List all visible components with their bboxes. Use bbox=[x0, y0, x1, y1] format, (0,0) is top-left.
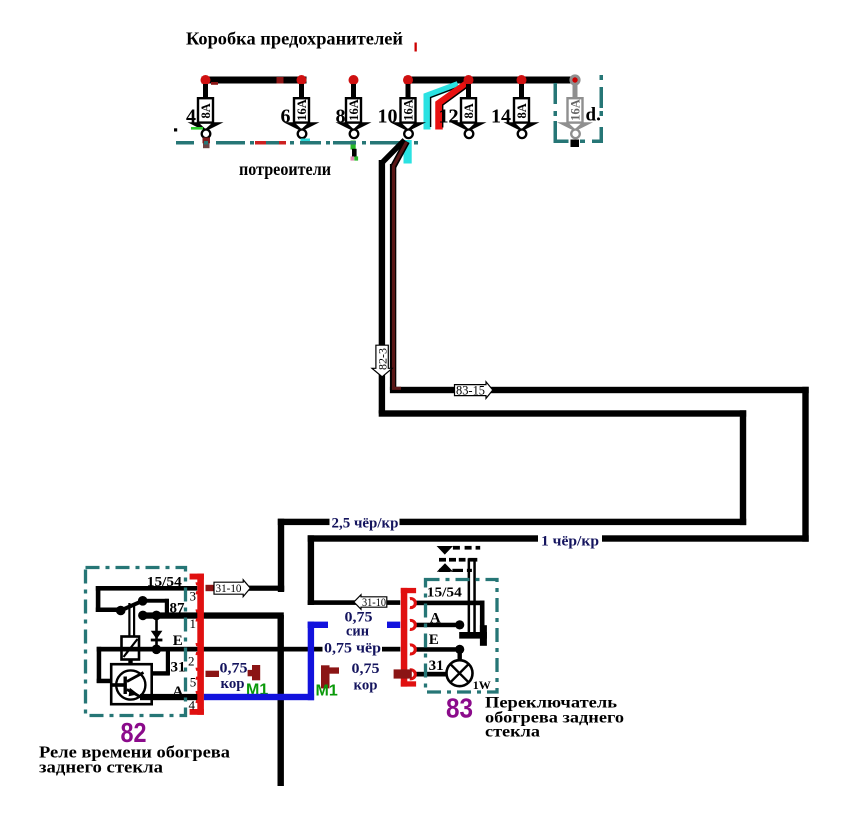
wire: vertical feed below relay 87 bbox=[278, 615, 284, 786]
svg-text:87: 87 bbox=[170, 601, 186, 617]
svg-text:3: 3 bbox=[190, 589, 197, 604]
green tick left of F4 bbox=[191, 127, 203, 130]
svg-text:31: 31 bbox=[171, 660, 186, 676]
lamp L1 1W bbox=[447, 660, 473, 686]
svg-text:16A: 16A bbox=[295, 99, 309, 121]
label arrow 31-10 (relay) bbox=[214, 580, 250, 597]
relay 82 internals bbox=[96, 586, 284, 704]
fuse F6 16A bbox=[281, 75, 320, 138]
svg-text:82-3: 82-3 bbox=[376, 348, 390, 370]
svg-text:кор: кор bbox=[221, 676, 245, 692]
fixed contact link to 87 bbox=[143, 599, 169, 603]
label arrow 82-3 bbox=[372, 345, 392, 377]
svg-text:16A: 16A bbox=[569, 99, 583, 121]
mechanical link (double line) bbox=[128, 603, 130, 638]
svg-text:2: 2 bbox=[188, 654, 195, 669]
label 2,5 чёр/кр bbox=[330, 513, 400, 530]
fuse F8 16A bbox=[336, 75, 372, 138]
svg-text:15/54: 15/54 bbox=[147, 575, 182, 590]
ground M1 marker (switch side) bbox=[321, 665, 330, 688]
switch wire 31 to lamp bbox=[414, 672, 447, 677]
svg-text:потреоители: потреоители bbox=[239, 159, 331, 179]
wire E relay to switch (0,75 чёр) bbox=[97, 647, 401, 652]
fuse F10 16A bbox=[378, 75, 427, 138]
fuse box boundary dash-dot line (teal with red dashes) bbox=[176, 141, 418, 145]
svg-text:31-10: 31-10 bbox=[216, 581, 242, 595]
triangle down bbox=[437, 546, 453, 555]
triangle up bbox=[437, 563, 453, 572]
wire 31 internal bbox=[145, 671, 170, 675]
svg-text:A: A bbox=[173, 684, 184, 700]
svg-text:0,75: 0,75 bbox=[352, 661, 380, 677]
svg-text:стекла: стекла bbox=[485, 724, 540, 741]
dark red tick at switch pin 31 bbox=[394, 669, 412, 678]
switch wire A + contact node bbox=[414, 623, 456, 628]
switch wire E + contact node bbox=[414, 647, 456, 652]
relay connector bar (red) bbox=[190, 574, 204, 715]
wire A internal bbox=[140, 694, 198, 700]
svg-text:E: E bbox=[429, 632, 439, 648]
svg-text:1: 1 bbox=[190, 616, 197, 631]
contact arm bbox=[121, 601, 143, 611]
relay pin 3 stub (dark red) + wire to node bbox=[206, 585, 215, 591]
wire 82-3 black: fuse10 to relay (2,5 black/red) bbox=[382, 140, 405, 163]
svg-text:8A: 8A bbox=[199, 103, 213, 118]
consumer stub below F6 (cyan) bbox=[301, 139, 311, 143]
svg-text:4: 4 bbox=[186, 106, 196, 128]
svg-text:2,5 чёр/кр: 2,5 чёр/кр bbox=[332, 516, 399, 532]
wire A blue: relay pin4 to switch pin A (0,75 син) bbox=[204, 622, 400, 701]
node on E wire bbox=[152, 645, 162, 655]
fuse FD 16A bbox=[557, 74, 593, 138]
svg-text:16A: 16A bbox=[402, 99, 416, 121]
svg-text:кор: кор bbox=[354, 678, 378, 694]
svg-text:6: 6 bbox=[281, 106, 291, 128]
wire E internal left branch bbox=[97, 647, 102, 683]
label 0,75 син bbox=[328, 610, 387, 637]
switch wire 15/54 to contact bbox=[414, 601, 485, 606]
dashes row2 bbox=[439, 558, 446, 562]
diode D1 bbox=[155, 615, 158, 649]
switch connector bar (red) bbox=[401, 588, 416, 687]
consumer stub below F8 (green/black) bbox=[351, 141, 356, 150]
wire 15/54 internal bbox=[96, 586, 198, 591]
svg-text:d.: d. bbox=[586, 105, 601, 126]
svg-text:заднего стекла: заднего стекла bbox=[39, 758, 163, 777]
svg-text:8A: 8A bbox=[515, 103, 529, 118]
svg-text:31: 31 bbox=[429, 658, 444, 674]
switch 83 dash-dot box bbox=[426, 580, 498, 693]
consumer stub below FD (black) bbox=[571, 140, 580, 148]
bus bar segment fuse4-fuse6 bbox=[202, 77, 307, 84]
svg-text:12: 12 bbox=[439, 106, 459, 128]
relay pin contacts (red arcs) bbox=[196, 584, 201, 702]
relay 82 dash-dot box bbox=[86, 568, 186, 716]
ground M1 marker (relay side) bbox=[252, 665, 260, 680]
svg-text:Коробка предохранителей: Коробка предохранителей bbox=[186, 29, 403, 49]
svg-text:M1: M1 bbox=[316, 683, 338, 700]
gray fuse dash-dot box bbox=[554, 75, 604, 143]
dark red tick on bus small bbox=[211, 82, 218, 85]
switch pin contacts (red arcs) bbox=[410, 599, 415, 679]
svg-text:1 чёр/кр: 1 чёр/кр bbox=[541, 534, 599, 550]
fuse F4 8A bbox=[186, 75, 224, 138]
consumer stub below F4 (dark red) bbox=[203, 138, 211, 144]
output stage box bbox=[111, 664, 152, 704]
svg-text:8A: 8A bbox=[462, 103, 476, 118]
actuator double line bbox=[468, 558, 471, 632]
consumer stub below F10 (cyan) bbox=[404, 140, 412, 164]
fuse F14 8A bbox=[491, 75, 540, 138]
svg-text:31-10: 31-10 bbox=[362, 595, 386, 609]
svg-text:син: син bbox=[346, 623, 369, 639]
svg-text:83: 83 bbox=[446, 693, 473, 724]
label 0,75 чёр bbox=[323, 641, 383, 655]
svg-text:15/54: 15/54 bbox=[427, 586, 462, 601]
svg-text:10: 10 bbox=[378, 106, 398, 128]
dark red tick on bus bbox=[277, 77, 284, 84]
switch 83 mechanism: dashed actuator bbox=[437, 546, 481, 633]
svg-text:4: 4 bbox=[189, 698, 196, 713]
svg-text:A: A bbox=[430, 610, 441, 626]
black dot left of F4 bbox=[174, 128, 177, 131]
dashes row3 bbox=[439, 569, 450, 572]
cyan wire from bus to consumer bbox=[427, 85, 458, 130]
svg-text:8: 8 bbox=[336, 106, 346, 128]
contact pivot node bbox=[116, 606, 126, 616]
svg-text:5: 5 bbox=[190, 675, 197, 690]
red wire from fuse12 node to consumer bbox=[439, 83, 469, 130]
label 1 чёр/кр bbox=[538, 531, 602, 547]
coil K1 bbox=[122, 637, 140, 660]
svg-text:0,75: 0,75 bbox=[220, 661, 248, 677]
label arrow 31-10 (switch, pointing left) bbox=[354, 595, 387, 610]
bus bar segment fuse10-fuseD bbox=[404, 77, 576, 84]
svg-text:83-15: 83-15 bbox=[456, 384, 485, 398]
red tick after title bbox=[415, 43, 417, 52]
svg-text:0,75 чёр: 0,75 чёр bbox=[324, 641, 381, 657]
wire E to 31 vertical bbox=[166, 649, 170, 675]
svg-text:E: E bbox=[173, 633, 183, 649]
wire 83-15 maroon core: fuse10 to switch (1 black/red) bbox=[393, 142, 407, 167]
transistor Q1 bbox=[116, 670, 145, 699]
svg-text:16A: 16A bbox=[347, 99, 361, 121]
contact bridge bar bbox=[459, 632, 487, 639]
svg-text:1W: 1W bbox=[473, 678, 491, 692]
dashes row1 bbox=[453, 546, 460, 550]
relay pin 5 stub (dark red) bbox=[206, 671, 220, 677]
svg-text:14: 14 bbox=[491, 106, 511, 128]
label arrow 83-15 bbox=[455, 382, 493, 399]
fuse F12 8A bbox=[439, 75, 487, 138]
wire 87 internal bbox=[141, 612, 284, 618]
